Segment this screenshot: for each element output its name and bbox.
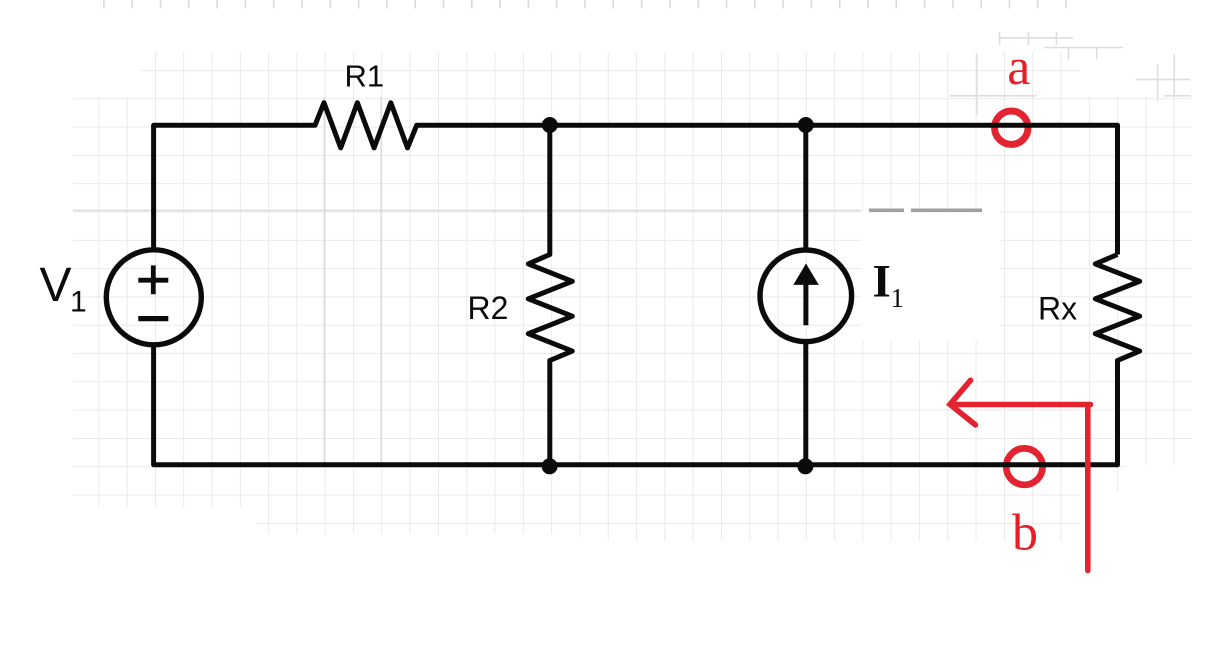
- svg-text:I: I: [873, 256, 891, 308]
- svg-text:b: b: [1012, 505, 1038, 562]
- svg-text:a: a: [1007, 39, 1030, 96]
- svg-text:1: 1: [891, 283, 905, 313]
- svg-text:R1: R1: [345, 59, 385, 94]
- svg-text:R2: R2: [468, 290, 509, 326]
- svg-text:Rx: Rx: [1038, 291, 1077, 327]
- svg-text:V: V: [40, 259, 72, 312]
- svg-text:1: 1: [70, 286, 87, 319]
